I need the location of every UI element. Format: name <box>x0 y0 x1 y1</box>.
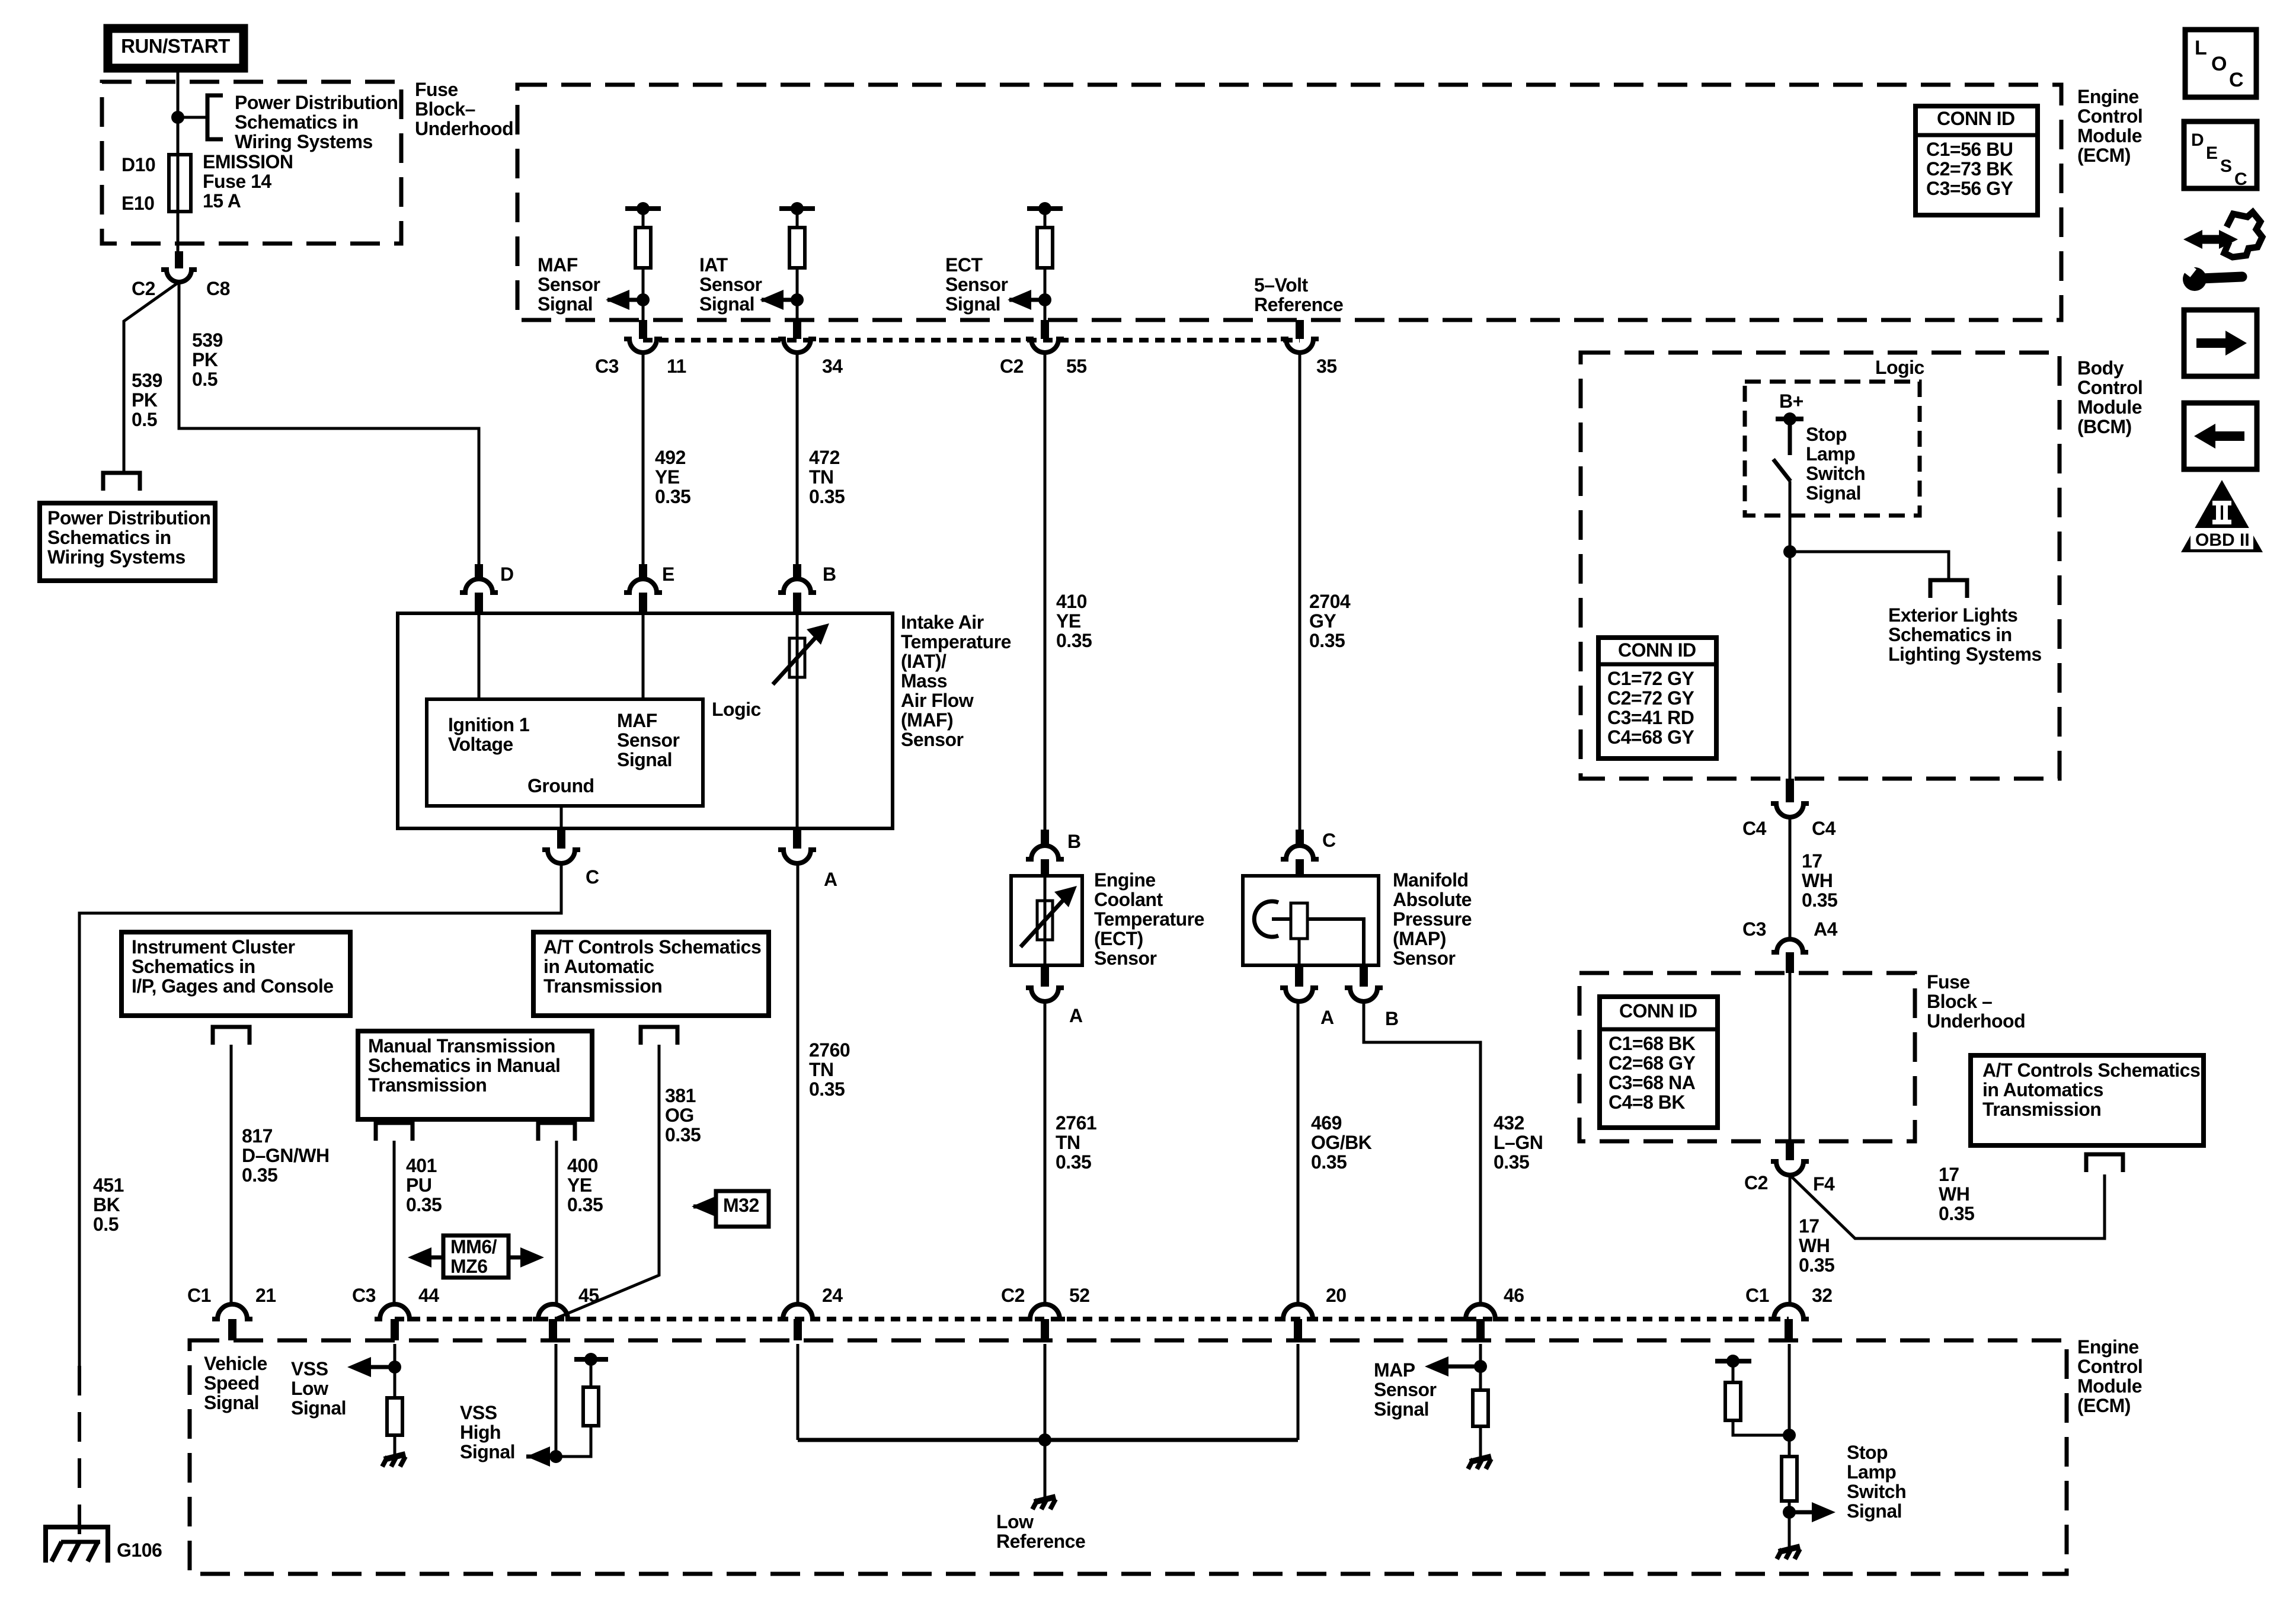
MAP internal wire to A <box>1298 939 1301 965</box>
svg-text:Wiring Systems: Wiring Systems <box>235 131 373 152</box>
wire B to IAT thermistor <box>796 593 799 638</box>
A/T controls reference box (right) <box>1971 1055 2204 1145</box>
svg-text:Fuse 14: Fuse 14 <box>203 171 271 192</box>
label 17 WH 0.35 (lower) <box>1799 1215 1834 1276</box>
svg-text:Fuse: Fuse <box>1927 971 1970 993</box>
thermistor IAT <box>773 623 829 684</box>
svg-text:400: 400 <box>567 1155 598 1176</box>
connector C2/C8 cup <box>161 270 197 282</box>
svg-text:CONN ID: CONN ID <box>1619 1000 1697 1022</box>
low reference bus <box>798 1438 1298 1442</box>
label G106 <box>117 1539 162 1561</box>
label A4 <box>1814 918 1838 940</box>
reference prong manual trans (left) <box>376 1123 412 1141</box>
wire 472 TN pin34 to IAT B <box>796 353 799 564</box>
fuse block underhood dashed box (top left) <box>102 82 401 244</box>
label Ignition 1 Voltage <box>448 714 529 755</box>
wire resistor to ground (stop lamp) <box>1788 1501 1791 1548</box>
svg-text:CONN ID: CONN ID <box>1618 639 1696 661</box>
svg-text:Sensor: Sensor <box>538 274 600 295</box>
label MAP Sensor Signal <box>1374 1359 1437 1420</box>
svg-text:E10: E10 <box>121 193 154 214</box>
svg-text:C3=56 GY: C3=56 GY <box>1926 178 2013 199</box>
svg-text:Ignition 1: Ignition 1 <box>448 714 529 735</box>
svg-text:Sensor: Sensor <box>1094 948 1157 969</box>
wire 410 YE pin55 to ECT B <box>1044 353 1047 830</box>
svg-text:17: 17 <box>1939 1164 1959 1185</box>
switch blade (stop lamp switch) <box>1773 459 1790 481</box>
wire pin45 internal <box>555 1344 558 1457</box>
svg-text:C: C <box>2229 69 2244 91</box>
connector A cup (ECT) <box>1026 965 1064 1001</box>
svg-text:Signal: Signal <box>617 749 672 770</box>
svg-text:Logic: Logic <box>1875 357 1924 378</box>
label D <box>500 564 514 585</box>
label 17 WH 0.35 (branch) <box>1939 1164 1974 1224</box>
svg-text:Reference: Reference <box>996 1531 1085 1552</box>
ECM top pin cup x=2193 <box>1281 339 1319 353</box>
svg-text:Low: Low <box>291 1378 328 1399</box>
label Stop Lamp Switch Signal (ECM) <box>1847 1442 1906 1522</box>
label Engine Coolant Temperature (ECT) Sensor <box>1094 869 1204 969</box>
label Instrument Cluster Schematics in I/P Gages and Console <box>132 936 334 997</box>
B+ feed bar <box>1776 412 1803 425</box>
svg-text:55: 55 <box>1066 356 1087 377</box>
svg-text:Signal: Signal <box>699 293 754 315</box>
label 472 TN 0.35 <box>809 447 845 507</box>
svg-text:OG/BK: OG/BK <box>1311 1132 1372 1153</box>
wire 2704 GY pin35 to MAP C <box>1299 353 1302 830</box>
label C (MAF ground) <box>586 866 599 888</box>
label A (ECT) <box>1069 1005 1083 1026</box>
svg-text:0.35: 0.35 <box>1802 889 1837 911</box>
svg-text:0.35: 0.35 <box>1056 1151 1091 1173</box>
ECM top pin stub x=1345 <box>793 320 801 339</box>
svg-text:Lamp: Lamp <box>1806 443 1855 465</box>
label 2760 TN 0.35 <box>809 1039 850 1100</box>
power distribution reference box <box>40 503 215 581</box>
label 492 YE 0.35 <box>655 447 690 507</box>
svg-text:Signal: Signal <box>460 1441 515 1462</box>
resistor IAT pullup <box>789 228 805 268</box>
junction VSS low <box>388 1361 401 1374</box>
connector C2/C8 pin stub <box>175 251 183 268</box>
svg-text:Temperature: Temperature <box>1094 908 1204 930</box>
svg-text:539: 539 <box>192 329 223 351</box>
reference prong instrument cluster <box>213 1027 250 1045</box>
wire pin52 to low reference bus <box>1044 1344 1047 1440</box>
ECT pullup wire top <box>1044 209 1047 228</box>
svg-text:Signal: Signal <box>538 293 593 315</box>
label pin 34 <box>822 356 843 377</box>
wire 2761 TN A to pin52 <box>1044 1001 1047 1305</box>
svg-text:WH: WH <box>1802 870 1833 891</box>
svg-text:MZ6: MZ6 <box>450 1256 488 1277</box>
wire 817 D-GN/WH to pin21 <box>230 1045 233 1305</box>
svg-text:VSS: VSS <box>460 1402 497 1423</box>
ECT signal wire to pin <box>1044 268 1047 320</box>
label C4 (left) <box>1742 818 1767 839</box>
wire junction to reference prong <box>178 116 207 119</box>
wire pullup resistor to junction <box>556 1426 591 1457</box>
svg-text:C1: C1 <box>1745 1285 1769 1306</box>
svg-text:20: 20 <box>1326 1285 1347 1306</box>
VSS high pullup bar <box>574 1353 608 1366</box>
svg-text:0.5: 0.5 <box>93 1214 119 1235</box>
svg-text:472: 472 <box>809 447 840 468</box>
svg-text:Mass: Mass <box>901 670 947 692</box>
label pin 11 <box>667 356 686 377</box>
BCM conn id table <box>1598 638 1716 758</box>
svg-text:OBD II: OBD II <box>2195 530 2250 550</box>
label pin 52 <box>1069 1285 1090 1306</box>
ECM bottom pin cap x=2498 <box>1460 1304 1501 1340</box>
svg-text:Engine: Engine <box>2077 1336 2139 1358</box>
svg-text:PK: PK <box>132 389 158 411</box>
svg-text:A4: A4 <box>1814 918 1838 940</box>
svg-text:Voltage: Voltage <box>448 734 513 755</box>
svg-text:0.35: 0.35 <box>809 486 845 507</box>
arrow MM6 right <box>509 1247 544 1267</box>
svg-text:Lighting Systems: Lighting Systems <box>1888 644 2042 665</box>
label Low Reference <box>996 1511 1085 1552</box>
label Ground <box>527 775 594 796</box>
fuse F14 EMISSION symbol <box>169 155 191 212</box>
svg-text:C3: C3 <box>595 356 619 377</box>
label B (ECT) <box>1067 831 1081 852</box>
svg-text:WH: WH <box>1939 1183 1969 1205</box>
svg-text:0.5: 0.5 <box>192 369 218 390</box>
svg-text:(MAF): (MAF) <box>901 709 953 731</box>
IAT pullup supply bar <box>779 202 815 215</box>
connector B cup (MAP) <box>1345 965 1383 1001</box>
svg-text:21: 21 <box>255 1285 276 1306</box>
svg-text:MAF: MAF <box>617 710 657 731</box>
resistor VSS high pullup <box>583 1387 599 1426</box>
svg-text:in Automatic: in Automatic <box>543 956 654 977</box>
wire ECT thermistor to A <box>1044 940 1047 965</box>
svg-text:S: S <box>2220 156 2232 176</box>
label E10 <box>121 193 154 214</box>
label Fuse Block-Underhood (top left) <box>415 79 513 139</box>
svg-text:Sensor: Sensor <box>901 729 964 750</box>
label C2 (fuse block bottom) <box>1744 1172 1768 1193</box>
label Logic (MAF) <box>712 699 761 720</box>
label Power Distribution Schematics in Wiring Systems (top) <box>235 92 398 152</box>
junction node on ignition feed <box>171 111 184 124</box>
svg-text:0.35: 0.35 <box>665 1124 701 1145</box>
label C8 <box>206 278 230 299</box>
connector B cap (ECT) <box>1026 830 1064 876</box>
MAF signal wire to pin <box>642 268 645 320</box>
connector C2/F4 cup <box>1771 1141 1809 1175</box>
ECM bottom pin cap x=1763 <box>1025 1304 1065 1340</box>
svg-text:MAP: MAP <box>1374 1359 1415 1381</box>
svg-text:469: 469 <box>1311 1112 1342 1134</box>
label 381 OG 0.35 <box>665 1085 701 1145</box>
svg-text:O: O <box>2211 53 2227 75</box>
wire 400 YE to pin45 <box>555 1141 558 1305</box>
label VSS High Signal <box>460 1402 515 1462</box>
IAT signal wire to pin <box>796 268 799 320</box>
svg-text:Transmission: Transmission <box>543 975 662 997</box>
IAT signal junction <box>791 293 804 306</box>
svg-text:0.35: 0.35 <box>1494 1151 1529 1173</box>
wire 469 OG/BK A to pin20 <box>1297 1001 1300 1305</box>
resistor MAF pullup <box>635 228 651 268</box>
svg-text:MM6/: MM6/ <box>450 1236 497 1257</box>
svg-text:Fuse: Fuse <box>415 79 458 100</box>
wire pin24 to low reference bus <box>797 1344 800 1440</box>
icon DESC box <box>2184 121 2257 189</box>
ground (MAP) <box>1468 1457 1491 1469</box>
svg-text:Block–: Block– <box>415 98 475 120</box>
label Manifold Absolute Pressure (MAP) Sensor <box>1393 869 1472 969</box>
svg-text:D: D <box>500 564 514 585</box>
svg-text:Signal: Signal <box>204 1392 259 1413</box>
svg-text:WH: WH <box>1799 1235 1830 1256</box>
svg-text:Sensor: Sensor <box>699 274 762 295</box>
svg-text:Control: Control <box>2077 377 2142 398</box>
label 17 WH 0.35 (upper) <box>1802 850 1837 911</box>
svg-text:Ground: Ground <box>527 775 594 796</box>
label 410 YE 0.35 <box>1056 591 1092 651</box>
svg-text:52: 52 <box>1069 1285 1090 1306</box>
svg-text:Signal: Signal <box>291 1397 346 1419</box>
connector D cap <box>460 564 498 613</box>
svg-text:OG: OG <box>665 1105 694 1126</box>
svg-text:C1=72 GY: C1=72 GY <box>1607 668 1694 689</box>
svg-text:17: 17 <box>1799 1215 1819 1237</box>
label 539 PK 0.5 (right) <box>192 329 223 390</box>
label Power Distribution Schematics in Wiring Systems (box) <box>47 507 210 568</box>
label pin 55 <box>1066 356 1087 377</box>
svg-text:C2: C2 <box>1744 1172 1768 1193</box>
label C1 (pin21) <box>187 1285 211 1306</box>
MAP signal arrow <box>1425 1356 1480 1377</box>
ECM bottom pin cap x=1346 <box>778 1304 818 1340</box>
body control module dashed box <box>1581 353 2060 779</box>
svg-text:EMISSION: EMISSION <box>203 151 293 172</box>
svg-text:35: 35 <box>1316 356 1337 377</box>
svg-text:11: 11 <box>667 356 686 377</box>
label 2704 GY 0.35 <box>1309 591 1351 651</box>
svg-text:C3: C3 <box>1742 918 1766 940</box>
wire 492 YE pin11 to MAF E <box>642 353 645 564</box>
label pin 46 <box>1504 1285 1524 1306</box>
svg-text:15 A: 15 A <box>203 190 241 212</box>
wire low reference to ground <box>1044 1440 1047 1498</box>
label MAF Sensor Signal <box>538 254 600 315</box>
wire 17 WH C2/F4 to pin32 <box>1789 1175 1792 1305</box>
wire ground out of logic box <box>560 806 563 828</box>
junction VSS high <box>549 1450 562 1463</box>
svg-text:Module: Module <box>2077 125 2142 146</box>
arrow M32 <box>692 1196 716 1217</box>
label 5-Volt Reference <box>1254 274 1343 315</box>
connector A cup (IAT low ref) <box>778 828 816 863</box>
svg-text:Air Flow: Air Flow <box>901 690 974 711</box>
svg-text:817: 817 <box>242 1125 273 1147</box>
label 817 D-GN/WH 0.35 <box>242 1125 330 1186</box>
svg-text:Manifold: Manifold <box>1393 869 1469 891</box>
IAT signal arrow <box>760 290 797 310</box>
resistor VSS low termination <box>387 1398 402 1435</box>
MAF/IAT sensor outer box <box>398 613 893 828</box>
reference prong (power distribution, top) <box>207 95 223 139</box>
thermistor ECT <box>1021 886 1077 947</box>
ECT pullup supply bar <box>1027 202 1063 215</box>
svg-text:Low: Low <box>996 1511 1034 1532</box>
svg-text:RUN/START: RUN/START <box>121 35 230 57</box>
svg-text:Manual Transmission: Manual Transmission <box>368 1035 555 1057</box>
svg-text:0.35: 0.35 <box>567 1194 603 1215</box>
label Engine Control Module (ECM) top <box>2077 86 2142 166</box>
svg-text:C4=68 GY: C4=68 GY <box>1607 726 1694 748</box>
svg-text:Engine: Engine <box>2077 86 2139 107</box>
label C2 (ECM conn) <box>1000 356 1024 377</box>
svg-text:Wiring Systems: Wiring Systems <box>47 546 186 568</box>
icon OBD II triangle <box>2181 480 2263 552</box>
svg-text:A: A <box>1069 1005 1083 1026</box>
label 400 YE 0.35 <box>567 1155 603 1215</box>
icon arrow right box <box>2184 310 2257 376</box>
wire pullup bar down <box>1732 1361 1735 1382</box>
label Engine Control Module (ECM) bottom <box>2077 1336 2142 1416</box>
svg-text:E: E <box>662 564 674 585</box>
svg-text:(ECT): (ECT) <box>1094 928 1143 949</box>
ECT signal arrow <box>1008 290 1045 310</box>
engine control module dashed box (top) <box>517 85 2061 320</box>
label C2 (pin52) <box>1001 1285 1025 1306</box>
svg-text:L: L <box>2195 37 2207 59</box>
ECM bottom pin cap x=666 <box>375 1304 415 1340</box>
label A (IAT low ref) <box>824 869 837 890</box>
reference prong A/T (left) <box>641 1027 677 1045</box>
svg-text:D–GN/WH: D–GN/WH <box>242 1145 330 1166</box>
svg-text:PK: PK <box>192 349 218 370</box>
svg-text:C1=68 BK: C1=68 BK <box>1609 1033 1696 1054</box>
icon LOC box <box>2185 30 2256 97</box>
svg-text:44: 44 <box>418 1285 439 1306</box>
MM6/MZ6 reference box <box>443 1235 509 1278</box>
label 451 BK 0.5 <box>93 1174 124 1235</box>
svg-text:C: C <box>1322 830 1336 851</box>
svg-text:401: 401 <box>406 1155 437 1176</box>
fuse block underhood dashed box (right) <box>1579 973 1915 1141</box>
svg-text:YE: YE <box>1056 610 1081 632</box>
svg-text:F4: F4 <box>1813 1173 1835 1195</box>
svg-text:BK: BK <box>93 1194 120 1215</box>
wire RUN/START to connector C2/C8 <box>177 72 180 251</box>
svg-text:410: 410 <box>1056 591 1087 612</box>
svg-text:0.35: 0.35 <box>1309 630 1345 651</box>
svg-text:Module: Module <box>2077 1375 2142 1397</box>
svg-text:Control: Control <box>2077 105 2142 127</box>
label A (MAP) <box>1320 1007 1334 1028</box>
svg-text:0.35: 0.35 <box>242 1164 277 1186</box>
label B+ <box>1779 391 1803 412</box>
connector row dotted line (ECM bottom) <box>395 1317 1789 1321</box>
svg-text:2704: 2704 <box>1309 591 1351 612</box>
label VSS Low Signal <box>291 1358 346 1419</box>
arrow MM6 left <box>408 1247 443 1267</box>
resistor stop lamp pullup <box>1725 1382 1741 1420</box>
label C1 (pin32) <box>1745 1285 1769 1306</box>
MAP element resistor <box>1291 903 1307 939</box>
svg-text:(BCM): (BCM) <box>2077 416 2132 437</box>
label pin 24 <box>822 1285 843 1306</box>
ECM bottom pin cap x=933 <box>533 1304 573 1340</box>
label Fuse Block - Underhood (right) <box>1927 971 2025 1032</box>
svg-text:0.35: 0.35 <box>406 1194 442 1215</box>
svg-text:A: A <box>1320 1007 1334 1028</box>
ground (VSS low) <box>382 1454 405 1467</box>
junction MAP signal <box>1474 1360 1487 1373</box>
manual transmission reference box <box>358 1031 592 1119</box>
svg-text:Block –: Block – <box>1927 991 1992 1012</box>
svg-text:0.35: 0.35 <box>1939 1203 1974 1224</box>
MAF signal junction <box>637 293 650 306</box>
connector C cap (MAP) <box>1281 830 1319 876</box>
svg-text:C2=72 GY: C2=72 GY <box>1607 687 1694 709</box>
svg-text:Switch: Switch <box>1806 463 1865 484</box>
svg-text:46: 46 <box>1504 1285 1524 1306</box>
svg-text:492: 492 <box>655 447 686 468</box>
svg-text:C3: C3 <box>352 1285 376 1306</box>
wire switch to junction <box>1789 481 1792 779</box>
svg-text:2761: 2761 <box>1056 1112 1096 1134</box>
stop lamp pullup bar <box>1715 1355 1751 1368</box>
svg-text:A: A <box>824 869 837 890</box>
svg-text:C2=73 BK: C2=73 BK <box>1926 158 2013 180</box>
svg-text:0.35: 0.35 <box>809 1078 845 1100</box>
stop lamp signal arrow <box>1789 1502 1835 1522</box>
svg-text:Transmission: Transmission <box>1982 1099 2101 1120</box>
label pin 21 <box>255 1285 276 1306</box>
svg-text:B+: B+ <box>1779 391 1803 412</box>
svg-text:Module: Module <box>2077 396 2142 418</box>
svg-text:GY: GY <box>1309 610 1336 632</box>
svg-text:Underhood: Underhood <box>1927 1010 2025 1032</box>
label F4 <box>1813 1173 1835 1195</box>
svg-text:Switch: Switch <box>1847 1481 1906 1502</box>
svg-text:TN: TN <box>1056 1132 1080 1153</box>
ECM bottom pin cap x=3018 <box>1769 1304 1809 1340</box>
svg-text:C2: C2 <box>1001 1285 1025 1306</box>
svg-text:Signal: Signal <box>1847 1500 1902 1522</box>
svg-text:Stop: Stop <box>1847 1442 1888 1463</box>
svg-text:Absolute: Absolute <box>1393 889 1472 910</box>
VSS low arrow <box>347 1357 395 1377</box>
label Body Control Module (BCM) <box>2077 357 2142 437</box>
svg-text:I/P, Gages and Console: I/P, Gages and Console <box>132 975 334 997</box>
MAP port symbol <box>1254 901 1291 937</box>
label Vehicle Speed Signal <box>204 1353 267 1413</box>
fuse block conn id table <box>1600 997 1718 1128</box>
MAF signal arrow <box>606 290 643 310</box>
ECM top pin cup x=1345 <box>778 339 816 353</box>
svg-text:Signal: Signal <box>1374 1398 1429 1420</box>
resistor ECT pullup <box>1037 228 1053 268</box>
stop lamp switch dashed box <box>1745 382 1920 516</box>
svg-text:in Automatics: in Automatics <box>1982 1079 2103 1100</box>
svg-text:(ECM): (ECM) <box>2077 1395 2131 1416</box>
svg-text:0.5: 0.5 <box>132 409 157 430</box>
svg-text:(ECM): (ECM) <box>2077 145 2131 166</box>
svg-text:17: 17 <box>1802 850 1822 872</box>
connector C4 cup <box>1771 779 1809 817</box>
